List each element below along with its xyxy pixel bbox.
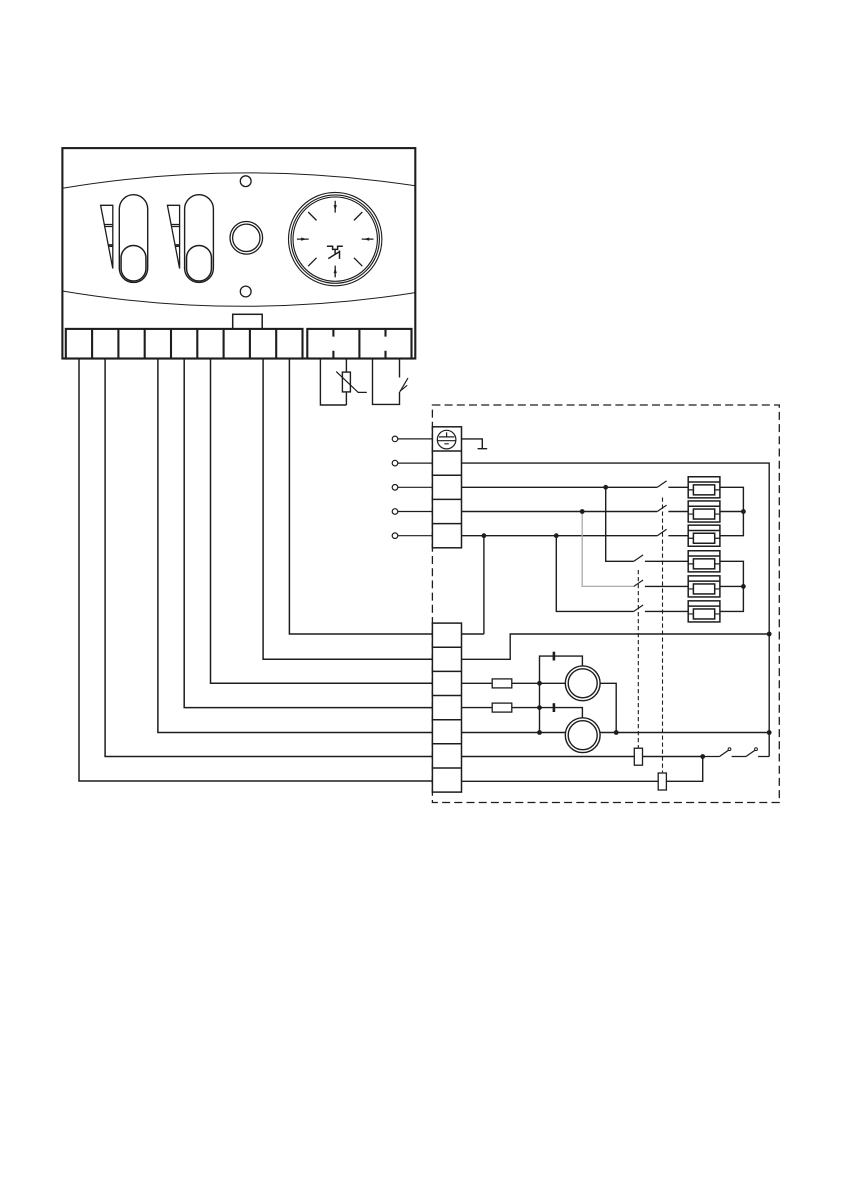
terminal strip left block dividers bbox=[92, 329, 276, 359]
S5 fixed stub bbox=[645, 585, 688, 587]
drop wire row3 to S5 bbox=[582, 512, 634, 587]
capacitor C2 plate mark bbox=[553, 703, 556, 712]
wire w6 panel cell2 to X3 cell6 bbox=[105, 359, 432, 757]
right block notch dividers bbox=[333, 329, 385, 359]
heater element E1 bbox=[688, 477, 720, 498]
terminal block X4 upper bbox=[432, 427, 461, 548]
slider knob 2 bbox=[187, 246, 212, 281]
wire X3 cell7 riser bbox=[462, 757, 703, 782]
wire w5 panel cell4 to X3 cell5 bbox=[158, 359, 433, 733]
switch S6 blade bbox=[634, 605, 643, 611]
upper elements right bracket bbox=[720, 487, 743, 535]
thermostat contact barb bbox=[400, 385, 407, 391]
drop wire row4 to X3 cell1 bbox=[483, 536, 485, 634]
drop wire row4 to S6 bbox=[556, 536, 634, 612]
pump motor M1 bbox=[565, 666, 600, 701]
X3 dividers bbox=[432, 647, 461, 768]
heater element E3 bbox=[688, 525, 720, 546]
wire w1 panel cell9 to X3 cell1 bbox=[289, 359, 432, 635]
safety contact S8 bbox=[746, 750, 769, 756]
clock centre switch icon bbox=[327, 246, 343, 259]
S4 fixed stub bbox=[645, 560, 688, 562]
heater element E2 bbox=[688, 501, 720, 522]
clock tick arrowheads bbox=[301, 205, 369, 273]
linkage dashed left bbox=[637, 570, 639, 748]
wire X3 cell1 riser link bbox=[462, 633, 484, 635]
wire X3 cell2 to right bus bbox=[462, 634, 770, 659]
heater element E5 bbox=[688, 576, 720, 597]
slider knob 1 bbox=[121, 246, 146, 281]
terminal strip tab bbox=[233, 314, 263, 329]
safety contact S7 bbox=[703, 750, 746, 756]
screw top bbox=[240, 176, 251, 187]
switch S3 blade bbox=[657, 529, 666, 535]
pump motor M2 bbox=[565, 718, 600, 753]
panel face top curve bbox=[62, 173, 415, 188]
wire X3 cell5 common bottom bbox=[462, 732, 770, 734]
wire w4 panel cell5 to X3 cell4 bbox=[184, 359, 432, 708]
S7 tip circle bbox=[728, 748, 731, 751]
screw bottom bbox=[240, 286, 251, 297]
terminal strip left block X1 bbox=[66, 329, 303, 359]
capacitor bus vertical bbox=[540, 656, 583, 732]
clock tick marks bbox=[297, 201, 374, 278]
sensor B1 diagonal mark bbox=[336, 372, 367, 393]
terminal strip right block X2 bbox=[307, 329, 411, 359]
control unit panel outline bbox=[62, 148, 415, 358]
switch S2 blade bbox=[657, 505, 666, 511]
heater element E4 bbox=[688, 551, 720, 572]
switch S5 blade bbox=[634, 580, 643, 586]
timer clock dial bbox=[289, 192, 382, 285]
sensor NTC B1 bbox=[342, 372, 350, 392]
slider scale wedge 2 bbox=[167, 205, 179, 268]
S8 tip circle bbox=[755, 748, 758, 751]
wire row L (X4 cell2) to right bus bbox=[462, 463, 770, 756]
wire w7 panel cell1 to X3 cell7 bbox=[79, 359, 432, 782]
boiler dashed enclosure bbox=[432, 405, 779, 803]
wire X3 cell6 to limiter chain bbox=[462, 756, 703, 758]
wire w3 panel cell6 to X3 cell3 bbox=[211, 359, 433, 684]
earth ground stub bbox=[462, 439, 488, 449]
S1 fixed stub bbox=[668, 486, 688, 488]
panel face bottom curve bbox=[62, 291, 415, 306]
switch S1 blade bbox=[657, 481, 666, 487]
wire row 2 (X4 cell3) bbox=[462, 486, 658, 488]
wire row 3 (X4 cell4) bbox=[462, 511, 658, 513]
linkage dashed right bbox=[662, 498, 664, 773]
thermal limiter F2 bbox=[658, 773, 666, 790]
wire sensor loop left bbox=[320, 359, 346, 406]
heater element E6 bbox=[688, 601, 720, 622]
S3 fixed stub bbox=[668, 535, 688, 537]
wire M1 right leg bbox=[600, 683, 616, 732]
slider slot 2 bbox=[185, 195, 214, 283]
S6 fixed stub bbox=[645, 610, 688, 612]
right block solid divider bbox=[358, 329, 360, 359]
round button bbox=[230, 222, 263, 255]
wire row 4 (X4 cell5) bbox=[462, 535, 658, 537]
thermostat contact B2 bbox=[400, 378, 408, 392]
wire w2 panel cell8 to X3 cell2 bbox=[263, 359, 432, 660]
thermal limiter F1 bbox=[634, 748, 642, 765]
switch S4 blade bbox=[634, 555, 643, 561]
X4 dividers bbox=[432, 451, 461, 524]
slider scale wedge 1 bbox=[101, 205, 113, 268]
terminal block X3 lower bbox=[432, 623, 461, 792]
wire X3 cell3 to pump M1 bbox=[462, 682, 566, 684]
connector pigtail circles and stubs bbox=[392, 436, 432, 538]
wire thermostat loop bbox=[373, 359, 400, 405]
lower elements right bracket bbox=[720, 561, 743, 611]
junction dots bbox=[482, 485, 772, 759]
S2 fixed stub bbox=[668, 511, 688, 513]
capacitor C1 plate mark bbox=[553, 652, 556, 661]
resistor R2 bbox=[492, 703, 512, 712]
earth symbol in X4 cell1 bbox=[437, 430, 456, 449]
wire X3 cell4 aux bbox=[462, 708, 583, 718]
resistor R1 bbox=[492, 679, 512, 688]
slider slot 1 bbox=[119, 195, 147, 283]
drop wire row2 to S4 bbox=[606, 487, 634, 561]
